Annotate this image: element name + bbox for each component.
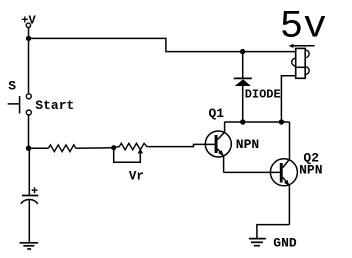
node top-rail diode junction <box>240 49 245 54</box>
wire Q2 emitter to ground <box>257 225 290 239</box>
node coil-bottom junction <box>279 119 284 124</box>
wire top rail down to diode <box>242 52 244 79</box>
resistor R1 <box>48 145 75 152</box>
transistor Q1 <box>205 122 231 172</box>
svg-text:+V: +V <box>21 14 36 28</box>
wire Vr to Q1 base <box>149 144 215 146</box>
wire mid rail to resistor <box>29 147 49 149</box>
svg-text:GND: GND <box>273 236 297 251</box>
capacitor C1 plus sign <box>32 187 38 193</box>
svg-text:S: S <box>8 79 16 94</box>
wire from switch bottom contact down to mid rail <box>28 115 30 148</box>
potentiometer Vr wiper return wire <box>114 148 141 163</box>
power terminal circle <box>26 23 30 27</box>
wire Q1 emitter to Q2 base <box>224 171 280 173</box>
potentiometer Vr body <box>114 143 149 150</box>
svg-text:Start: Start <box>35 98 74 113</box>
capacitor C1 curved plate <box>21 200 38 204</box>
ground left <box>20 243 38 249</box>
node Vr left junction <box>111 145 116 150</box>
diode D1 triangle <box>235 79 251 86</box>
node mid-left junction <box>26 146 31 151</box>
transistor Q2 <box>270 122 297 225</box>
switch S bottom contact <box>26 110 31 115</box>
ground right <box>249 239 266 246</box>
svg-text:Q1: Q1 <box>209 106 225 121</box>
wire coil bottom lead <box>281 76 295 122</box>
wire collector bus <box>225 121 290 123</box>
wire resistor to Vr <box>76 147 114 149</box>
relay coil L1 body <box>292 48 310 78</box>
wire from +V terminal down to switch <box>28 28 30 94</box>
wire capacitor to ground <box>28 200 30 243</box>
svg-text:DIODE: DIODE <box>245 87 281 101</box>
wire mid junction down to capacitor <box>28 148 30 195</box>
switch S actuator lever <box>8 96 20 114</box>
diode D1 cathode bar <box>234 77 252 79</box>
capacitor C1 top plate <box>22 195 38 197</box>
wire top rail horizontal from junction <box>29 38 296 51</box>
node top-left junction <box>26 36 31 41</box>
potentiometer Vr wiper arrow <box>138 149 144 154</box>
node diode-bottom junction <box>240 119 245 124</box>
svg-text:NPN: NPN <box>236 137 259 152</box>
relay armature arrow <box>289 44 315 48</box>
svg-text:NPN: NPN <box>299 163 322 178</box>
svg-text:Vr: Vr <box>129 170 144 184</box>
svg-text:5v: 5v <box>280 4 327 48</box>
wire diode to collector bus <box>242 86 244 122</box>
switch S top contact <box>26 94 31 99</box>
